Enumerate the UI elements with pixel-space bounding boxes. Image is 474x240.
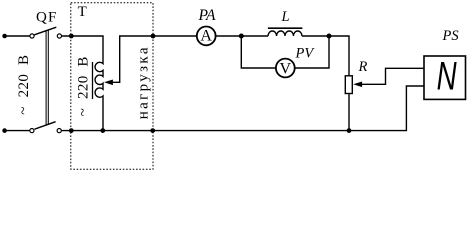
svg-text:QF: QF (36, 9, 58, 25)
svg-text:PV: PV (295, 45, 316, 61)
svg-text:нагрузка: нагрузка (136, 45, 152, 119)
svg-text:~ 220 В: ~ 220 В (16, 55, 32, 115)
svg-text:R: R (358, 59, 368, 75)
svg-text:~ 220 В: ~ 220 В (75, 56, 91, 116)
svg-text:N: N (437, 54, 457, 98)
svg-text:PA: PA (198, 7, 216, 24)
svg-text:L: L (281, 9, 290, 25)
svg-text:A: A (200, 28, 212, 45)
svg-text:V: V (280, 60, 292, 77)
svg-text:T: T (78, 4, 87, 20)
svg-text:PS: PS (442, 28, 460, 44)
